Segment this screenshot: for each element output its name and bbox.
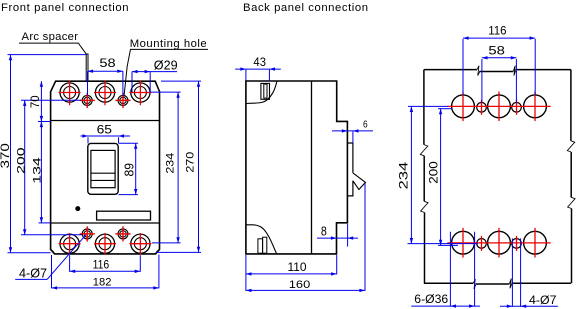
front bottom terminal 3 inner circle [134, 238, 146, 250]
dim O29 right extension [149, 72, 151, 93]
dim 370 line [10, 55, 12, 253]
front top mounting hole 2 outer circle [118, 95, 128, 105]
dim 116 back left extension [462, 39, 464, 95]
dim 6-O36 line [411, 305, 480, 307]
dim 200 back bottom extension [438, 244, 458, 246]
dim 134 arrows [40, 122, 43, 128]
front top terminal 2 outer circle [95, 83, 114, 102]
front view body outline [51, 81, 160, 254]
dim 65 left extension [87, 137, 89, 143]
dim 4-O7 right extension [520, 238, 522, 306]
dim 116 front left extension [69, 255, 71, 272]
svg-text:58: 58 [99, 57, 115, 70]
front top terminal 2 red center cross [104, 81, 106, 105]
front top terminal 3 outer circle [131, 83, 150, 102]
front bottom mounting hole 2 inner circle [120, 231, 126, 237]
side view bottom slot left [258, 239, 263, 253]
front top mounting hole 1 inner circle [84, 97, 90, 103]
side view top slot inner [264, 84, 267, 98]
dim 370 top extension [8, 54, 87, 56]
dim 116 front line [70, 270, 141, 272]
svg-text:58: 58 [488, 44, 505, 57]
back bottom row red horizontal [447, 242, 550, 244]
dim 43 line [235, 68, 281, 70]
svg-text:Mounting hole: Mounting hole [130, 38, 207, 50]
side view top slot outer [261, 83, 270, 99]
dim 43 left extension [245, 70, 247, 81]
front bottom terminal 3 outer circle [131, 234, 150, 253]
dim 58 back left extension [481, 59, 483, 103]
front bottom terminal 1 red center cross [69, 233, 71, 254]
dim 70 arrows [40, 81, 43, 87]
front bottom mounting hole 2 outer circle [118, 229, 128, 239]
dim 160 line [246, 289, 365, 291]
dim 6 extension [352, 132, 354, 144]
dim 89 line [135, 143, 137, 194]
front top mounting hole 2 red cross [122, 93, 124, 108]
dim 58 back line [482, 57, 517, 59]
back top terminal hole 2 red vertical [498, 92, 500, 122]
front bottom mounting hole 2 red cross [122, 226, 124, 241]
dim 182 line [52, 287, 159, 289]
front top terminal 3 inner circle [134, 87, 146, 99]
dim 6-O36 left extension [449, 232, 451, 307]
side view stud plate [347, 143, 353, 196]
svg-text:200: 200 [426, 161, 440, 183]
dim 234 front top extension [151, 91, 181, 93]
dim 234 front line [177, 92, 179, 243]
svg-text:89: 89 [123, 163, 137, 177]
front bottom terminal 1 outer circle [60, 234, 79, 253]
dim 43 right extension [268, 70, 270, 82]
front bottom mounting hole 1 outer circle [82, 229, 92, 239]
svg-text:Arc spacer: Arc spacer [22, 31, 79, 43]
dim 200 top extension [21, 99, 81, 101]
svg-text:182: 182 [93, 276, 112, 288]
front top mounting hole 1 outer circle [82, 95, 92, 105]
front bottom terminal strip line [51, 222, 160, 224]
back bottom terminal hole 3 [524, 231, 547, 254]
dim 65 line [81, 135, 131, 137]
svg-text:134: 134 [30, 157, 43, 184]
svg-text:200: 200 [14, 147, 27, 174]
back top terminal hole 1 [452, 95, 475, 118]
dim 6-O36 right extension [474, 232, 476, 307]
svg-text:234: 234 [163, 152, 176, 173]
dim 110 line [246, 273, 337, 275]
back top terminal hole 3 [524, 95, 547, 118]
dim 370 bottom extension [8, 252, 51, 254]
mounting hole leader [124, 49, 208, 96]
dim 234 back bottom extension [408, 243, 479, 245]
back bottom terminal hole 2 [488, 231, 511, 254]
svg-text:43: 43 [253, 57, 266, 69]
front body bottom-right foot notch [156, 249, 160, 254]
svg-text:4-Ø7: 4-Ø7 [19, 266, 47, 280]
back bottom terminal hole 1 red vertical [462, 228, 464, 258]
side view top face curve [246, 81, 277, 103]
dim 200 bottom extension [21, 234, 82, 236]
front bottom terminal 2 outer circle [95, 234, 114, 253]
dim 116 back right extension [534, 39, 536, 95]
side view bottom face curve [246, 225, 277, 254]
front bottom terminal 3 red center cross [139, 233, 141, 254]
dim 234 back top extension [408, 105, 448, 107]
dim O29 line [132, 71, 177, 73]
svg-text:116: 116 [93, 259, 110, 272]
back bottom mounting hole 1 red vertical [481, 236, 483, 251]
arc spacer tab [86, 54, 88, 81]
back view top edge with breaks [424, 69, 477, 71]
dim 134 extension at 121.5 [38, 121, 51, 123]
dim 4-O7 left extension [511, 238, 513, 306]
back view bottom edge with breaks [424, 282, 473, 284]
back top terminal hole 1 red vertical [462, 92, 464, 122]
dim 4-O7 line [500, 305, 558, 307]
dim 234 front bottom extension [152, 242, 181, 244]
back view left edge with breaks [423, 70, 425, 145]
dim 65 right extension [118, 137, 120, 143]
svg-text:Front panel connection: Front panel connection [1, 2, 129, 14]
svg-text:234: 234 [398, 162, 411, 190]
4-O7 leader front [15, 278, 47, 280]
dim 110 right extension [336, 255, 338, 274]
front top terminal strip line [51, 120, 160, 122]
dim 182 right extension [158, 255, 160, 289]
dim 234 back line [410, 106, 412, 243]
front top mounting hole 2 inner circle [120, 97, 126, 103]
svg-text:160: 160 [289, 278, 311, 291]
back top mounting hole 2 red vertical [516, 100, 518, 115]
side view inner vertical line [311, 81, 313, 254]
svg-text:110: 110 [287, 261, 307, 274]
dim 8 extension [347, 224, 349, 247]
back top terminal hole 3 red vertical [534, 92, 536, 122]
front top terminal 1 inner circle [64, 87, 76, 99]
svg-text:4-Ø7: 4-Ø7 [529, 293, 557, 307]
front top terminal 2 inner circle [99, 87, 111, 99]
dim 116 front right extension [139, 255, 141, 272]
switch handle inner [91, 150, 115, 187]
back bottom mounting hole 2 red vertical [516, 236, 518, 251]
back bottom mounting hole 1 [477, 239, 487, 249]
dim 200 line [24, 100, 26, 235]
arc spacer leader [19, 43, 86, 54]
svg-text:370: 370 [0, 143, 11, 168]
back top terminal hole 2 [488, 95, 511, 118]
svg-text:270: 270 [183, 151, 196, 172]
svg-text:6-Ø36: 6-Ø36 [414, 292, 448, 306]
side view outline [246, 81, 348, 254]
dim 58 front left extension [87, 71, 89, 95]
dim 134 bottom extension [39, 222, 51, 224]
dim 58 front right extension [122, 71, 124, 95]
dim 58 front line [88, 70, 123, 72]
switch handle grip line 1 [91, 172, 115, 174]
svg-text:70: 70 [30, 96, 42, 109]
dim 270 bottom extension [156, 251, 201, 253]
front top mounting hole 1 red cross [86, 93, 88, 108]
front bottom mounting hole 1 red cross [86, 226, 88, 241]
front top terminal 1 red center cross [69, 81, 71, 105]
back top mounting hole 1 [477, 103, 487, 113]
dim 89 top extension [119, 142, 138, 144]
back top row red horizontal [447, 105, 550, 107]
dim 70 and 134 shared line [40, 81, 42, 223]
dim 160 left extension [245, 255, 247, 291]
dim 270 top extension [161, 80, 201, 82]
dim 200 back line [440, 109, 442, 246]
dim 6 line [332, 130, 373, 132]
label window [97, 211, 151, 220]
side view bottom slot right [263, 237, 267, 253]
switch handle outer [88, 143, 118, 194]
dim 8 line [317, 237, 358, 239]
back top mounting hole 2 [512, 103, 522, 113]
back bottom mounting hole 2 [512, 239, 522, 249]
svg-text:Back panel connection: Back panel connection [243, 2, 368, 14]
svg-text:116: 116 [488, 26, 506, 38]
back top mounting hole 1 red vertical [481, 100, 483, 115]
side view wire clamp diamond [353, 173, 366, 190]
front bottom terminal 1 inner circle [64, 238, 76, 250]
dim 182 left extension [51, 255, 53, 288]
dim O29 left extension [131, 72, 133, 93]
back view right edge with breaks [570, 70, 572, 141]
switch handle grip line 2 [91, 179, 115, 181]
svg-text:Ø29: Ø29 [154, 57, 178, 72]
svg-text:6: 6 [363, 119, 368, 131]
dim 89 bottom extension [119, 194, 138, 196]
dim 200 back top extension [438, 108, 452, 110]
dim 58 back right extension [515, 59, 517, 103]
back bottom terminal hole 2 red vertical [498, 228, 500, 258]
dim 116 back line [463, 37, 535, 39]
svg-text:8: 8 [321, 224, 327, 239]
front bottom terminal 2 inner circle [99, 238, 111, 250]
back bottom terminal hole 1 [452, 231, 475, 254]
back bottom terminal hole 3 red vertical [534, 228, 536, 258]
front top terminal 3 red center cross [139, 81, 141, 105]
front body bottom-left foot notch [51, 249, 55, 254]
front bottom terminal 2 red center cross [104, 233, 106, 254]
front top terminal 1 outer circle [60, 83, 79, 102]
front bottom mounting hole 1 inner circle [84, 231, 90, 237]
dim 270 line [198, 81, 200, 252]
indicator dot [75, 206, 80, 211]
dim 160 right extension [364, 184, 366, 291]
svg-text:65: 65 [97, 123, 112, 137]
